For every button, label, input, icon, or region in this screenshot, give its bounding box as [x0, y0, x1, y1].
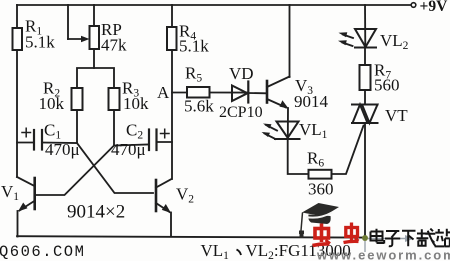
wire cross coupling C1 to V2 base [77, 143, 153, 193]
svg-text:R6: R6 [307, 149, 324, 170]
svg-text:10k: 10k [123, 94, 149, 113]
wire V2 emitter to bottom rail [170, 213, 172, 237]
transistor V3 [267, 76, 329, 111]
wire R4 rail to V2 collector [171, 50, 173, 179]
wire top rail [17, 4, 410, 6]
wire RP wiper [68, 5, 90, 42]
svg-text:9014×2: 9014×2 [67, 202, 125, 223]
resistor R5 [172, 64, 248, 116]
svg-text:5.1k: 5.1k [179, 37, 209, 56]
wire cross coupling C2 to V1 base [37, 146, 115, 196]
capacitor C1 [17, 121, 80, 160]
svg-text:560: 560 [374, 76, 400, 95]
label bottom caption VL1 VL2 FG113000 [201, 241, 351, 261]
resistor R2 [39, 79, 83, 114]
wire tee to R2 R3 [77, 68, 114, 88]
svg-text:5.1k: 5.1k [25, 33, 55, 52]
svg-text:VL1: VL1 [299, 120, 328, 141]
LED VL2 [338, 5, 409, 52]
svg-text:VL2: VL2 [380, 31, 409, 52]
wire V1 emitter to bottom rail [17, 211, 19, 237]
svg-text:C1: C1 [44, 121, 61, 142]
svg-text:C2: C2 [126, 121, 143, 142]
transistor V2 [156, 179, 194, 213]
watermark red chong 1 [313, 224, 331, 246]
resistor R4 [167, 22, 209, 56]
wire VL1 to R6 [288, 139, 309, 174]
svg-text:V1: V1 [1, 182, 19, 203]
svg-text:VT: VT [385, 106, 408, 125]
watermark text dianzi xiazaizhan [371, 229, 450, 247]
terminal +9V [411, 0, 448, 15]
watermark red chong 2 [344, 223, 359, 243]
resistor R3 [109, 79, 150, 114]
LED VL1 [262, 120, 328, 141]
transistor V1 [1, 177, 35, 212]
svg-text:5.6k: 5.6k [184, 97, 214, 116]
watermark gray arrow [365, 235, 414, 252]
svg-text:47k: 47k [101, 36, 127, 55]
svg-text:360: 360 [308, 180, 334, 199]
wire R6 to VT gate [332, 126, 364, 175]
svg-text:2CP10: 2CP10 [219, 104, 263, 121]
svg-text:470μ: 470μ [111, 140, 146, 159]
capacitor C2 [111, 121, 172, 160]
svg-text:9014: 9014 [294, 92, 329, 111]
watermark graduation cap [299, 203, 339, 238]
svg-text:A: A [157, 83, 170, 102]
wire V3 emitter to VL1 [287, 108, 289, 139]
svg-text:VD: VD [229, 64, 254, 83]
svg-text:470μ: 470μ [45, 140, 80, 159]
resistor R6 [307, 149, 334, 199]
wire bottom rail [17, 236, 365, 237]
wire R4 rail top [171, 5, 173, 27]
wire VL2 to R7 [364, 48, 366, 66]
triac VT [352, 105, 408, 126]
svg-text:+9V: +9V [420, 0, 449, 15]
wire VT cathode to bottom rail [364, 123, 366, 238]
potentiometer RP [90, 5, 128, 68]
wire R2 to C1 junction [76, 110, 78, 143]
svg-text:V2: V2 [176, 185, 194, 206]
resistor R7 [360, 61, 400, 95]
svg-text:www.eeworm.com: www.eeworm.com [316, 248, 450, 261]
svg-text:Q606.COM: Q606.COM [0, 243, 85, 261]
watermark junction dot [362, 235, 368, 241]
wire left rail lower [16, 50, 18, 177]
diode VD [219, 64, 263, 121]
svg-text:VL1: VL1 [201, 241, 230, 261]
svg-text:R5: R5 [185, 64, 202, 85]
wire left rail upper [16, 5, 18, 28]
wire VD to V3 base [248, 92, 266, 94]
wire R3 to C2 junction [113, 110, 115, 146]
resistor R1 [13, 17, 56, 52]
wire R7 to VT [364, 90, 366, 105]
svg-text:10k: 10k [39, 94, 65, 113]
wire V3 collector to top rail [289, 5, 291, 77]
